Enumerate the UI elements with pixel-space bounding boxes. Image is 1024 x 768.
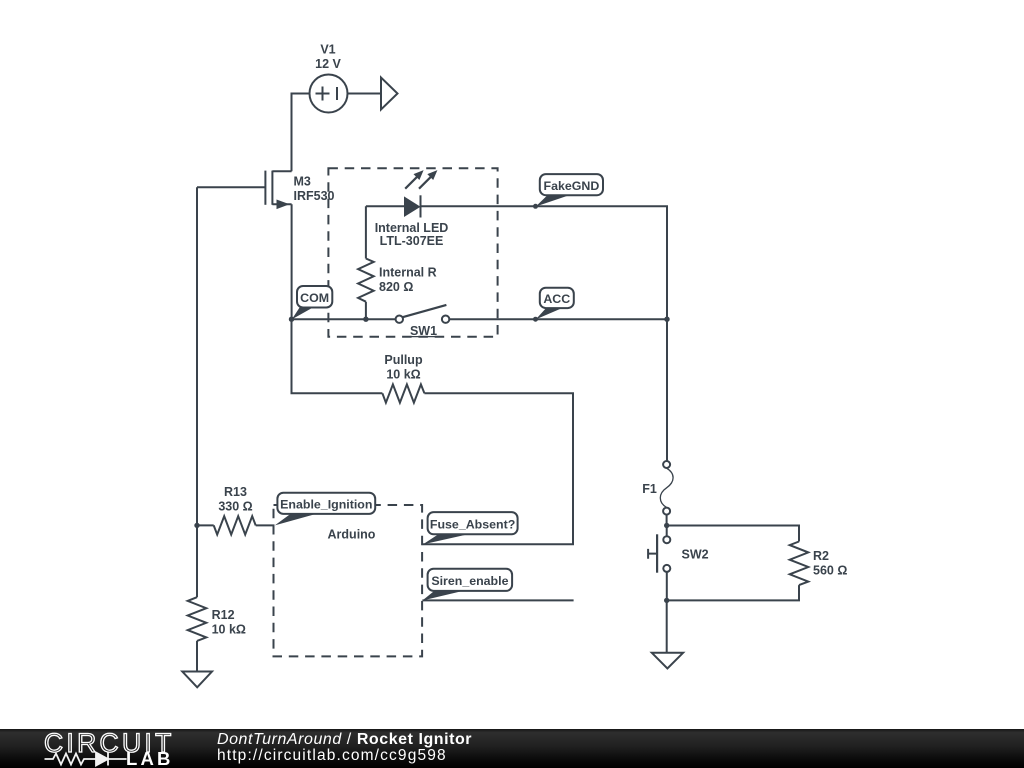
svg-text:560 Ω: 560 Ω: [813, 564, 847, 578]
junction dots: [194, 204, 669, 603]
node FakeGND junction: [533, 204, 538, 209]
label R12: [212, 608, 246, 636]
label Internal R: [379, 265, 437, 294]
wire Siren_enable: [422, 599, 573, 601]
label M3: [294, 174, 335, 203]
label R13: [218, 485, 252, 514]
node ACC junction: [533, 317, 538, 322]
CircuitLab logo: [30, 729, 230, 768]
svg-text:Fuse_Absent?: Fuse_Absent?: [430, 517, 515, 531]
svg-text:R2: R2: [813, 549, 829, 563]
wire right vertical to fuse: [666, 319, 668, 461]
flag Enable_Ignition: [275, 493, 375, 526]
flag ACC: [536, 288, 574, 320]
node right corner junction: [664, 317, 669, 322]
wire main horizontal net at y=319: [292, 318, 668, 320]
wire pullup net: [292, 319, 574, 544]
diode LED D1: [404, 170, 437, 217]
label Internal LED: [375, 221, 449, 248]
svg-text:F1: F1: [642, 482, 657, 496]
switch SW1: [396, 305, 450, 323]
dashed enclosure box lamp assembly: [328, 168, 497, 337]
svg-text:FakeGND: FakeGND: [544, 179, 600, 193]
flag COM: [292, 286, 333, 319]
svg-text:IRF530: IRF530: [294, 189, 335, 203]
fuse F1: [660, 461, 673, 526]
flag Fuse_Absent?: [423, 512, 518, 544]
wire V1 right lead: [348, 93, 382, 95]
svg-text:LTL-307EE: LTL-307EE: [380, 234, 444, 248]
svg-text:Siren_enable: Siren_enable: [431, 574, 508, 588]
node SW2 top junction: [664, 523, 669, 528]
svg-text:Arduino: Arduino: [328, 528, 376, 542]
footer bar: [0, 729, 1024, 768]
svg-text:Internal R: Internal R: [379, 265, 437, 279]
resistor Pullup: [382, 384, 424, 402]
svg-text:12 V: 12 V: [315, 57, 341, 71]
svg-text:10 kΩ: 10 kΩ: [386, 367, 420, 381]
node SW2 bottom junction: [664, 598, 669, 603]
node internal R junction: [363, 317, 368, 322]
flag FakeGND: [536, 174, 603, 206]
resistor Internal R: [358, 259, 374, 302]
net arrow terminal: [381, 78, 398, 110]
transistor M3: [265, 171, 291, 210]
ground right: [652, 653, 683, 669]
svg-text:10 kΩ: 10 kΩ: [212, 622, 246, 636]
wire LED anode: [366, 205, 404, 207]
wire LED cathode to FakeGND corner and down: [421, 206, 668, 319]
svg-text:ACC: ACC: [543, 292, 570, 306]
wire SW2 bottom node: [667, 585, 799, 653]
wire V1 left lead to M3 drain: [292, 94, 310, 172]
flag Siren_enable: [422, 569, 512, 601]
resistor R12: [188, 525, 207, 671]
wire M3 source down to COM node: [291, 204, 293, 319]
svg-text:LAB: LAB: [126, 748, 174, 768]
ground left: [182, 672, 212, 688]
label R2: [813, 549, 847, 578]
resistor R2: [790, 542, 809, 586]
node R13 junction: [194, 523, 199, 528]
transistor M3 gate wire: [197, 186, 265, 188]
svg-text:820 Ω: 820 Ω: [379, 280, 413, 294]
svg-text:V1: V1: [320, 43, 335, 57]
svg-text:R12: R12: [212, 608, 235, 622]
svg-text:Pullup: Pullup: [384, 353, 423, 367]
label V1 value: [315, 43, 341, 72]
svg-text:R13: R13: [224, 485, 247, 499]
wire internal R leads: [365, 206, 367, 319]
dashed enclosure box Arduino: [274, 505, 423, 656]
svg-text:COM: COM: [300, 291, 329, 305]
wire left vertical from gate down to R13 node: [196, 187, 198, 525]
svg-text:Enable_Ignition: Enable_Ignition: [280, 497, 372, 511]
voltage source V1: [310, 75, 348, 113]
resistor R13: [197, 516, 275, 534]
credit line 2: [217, 747, 447, 765]
wire SW2 top node: [667, 526, 799, 542]
svg-text:SW1: SW1: [410, 324, 437, 338]
svg-text:SW2: SW2: [682, 548, 709, 562]
svg-text:330 Ω: 330 Ω: [218, 500, 252, 514]
switch SW2: [648, 526, 670, 601]
node COM junction: [289, 317, 294, 322]
credit line 1: [217, 731, 472, 749]
svg-text:M3: M3: [294, 174, 311, 188]
label Pullup: [384, 353, 423, 382]
